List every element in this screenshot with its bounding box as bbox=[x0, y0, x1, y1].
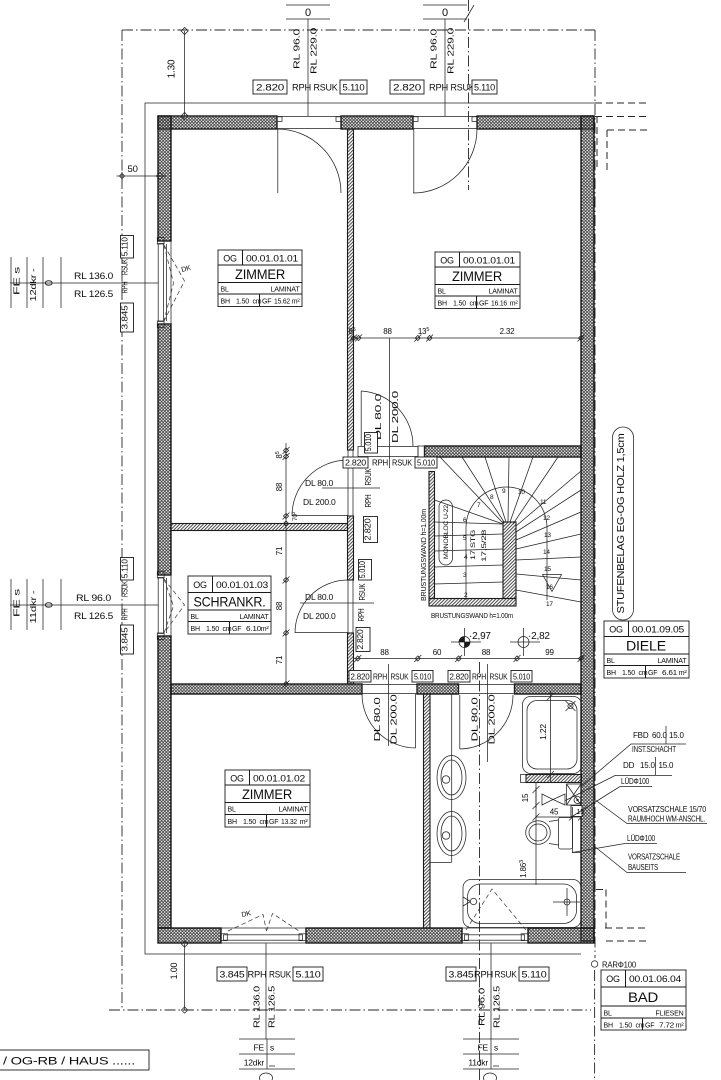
shower drain bbox=[566, 701, 576, 711]
svg-text:BAUSEITS: BAUSEITS bbox=[628, 863, 658, 872]
svg-text:4: 4 bbox=[464, 554, 468, 561]
svg-text:RL 96.0: RL 96.0 bbox=[292, 28, 302, 69]
svg-text:RL 96.0: RL 96.0 bbox=[76, 593, 111, 603]
svg-text:s: s bbox=[270, 1043, 274, 1053]
svg-text:RL 126.5: RL 126.5 bbox=[74, 289, 113, 299]
interior wall B segment 1 bbox=[171, 684, 362, 694]
stair walkline bbox=[466, 487, 547, 600]
svg-text:OG: OG bbox=[223, 254, 237, 264]
svg-text:15.0: 15.0 bbox=[669, 731, 685, 740]
svg-text:DL 80.0: DL 80.0 bbox=[305, 592, 334, 602]
vent circle bbox=[574, 797, 581, 804]
svg-text:DL 80.0: DL 80.0 bbox=[470, 697, 480, 742]
svg-text:1.50: 1.50 bbox=[453, 301, 466, 308]
toilet axis line bbox=[535, 783, 537, 885]
bottom marker W4 RL texts bbox=[477, 985, 502, 1028]
STUFENBELAG stadium label bbox=[613, 427, 634, 620]
window W4 bottom wall (BAD) frame bbox=[462, 928, 529, 943]
svg-text:50: 50 bbox=[128, 164, 138, 175]
top level marker axis line door D1 bbox=[307, 19, 309, 116]
exterior wall left segment 2 bbox=[158, 324, 171, 575]
svg-text:9: 9 bbox=[502, 488, 506, 495]
window W2 DK opening dashes bbox=[164, 579, 185, 633]
svg-text:6.10: 6.10 bbox=[246, 626, 261, 633]
svg-text:5.010: 5.010 bbox=[363, 434, 373, 451]
door D6 bottom ZIMMER opening bbox=[362, 684, 417, 694]
door D2 jamb blocks bbox=[413, 117, 418, 122]
svg-text:5.110: 5.110 bbox=[343, 83, 365, 93]
svg-text:RSUK: RSUK bbox=[490, 673, 509, 682]
svg-text:DL 200.0: DL 200.0 bbox=[487, 694, 497, 745]
svg-text:13.32: 13.32 bbox=[281, 819, 297, 826]
svg-text:m²: m² bbox=[300, 819, 309, 826]
door D7 BAD opening bbox=[459, 684, 515, 694]
room table ZIMMER1 bbox=[218, 250, 302, 307]
svg-text:99: 99 bbox=[545, 648, 554, 657]
interior partition P1 middle segment bbox=[348, 516, 354, 580]
svg-text:OG: OG bbox=[609, 625, 623, 635]
svg-text:LÜDΦ100: LÜDΦ100 bbox=[621, 777, 650, 786]
svg-text:5.010: 5.010 bbox=[357, 561, 367, 578]
door D7 DL size labels bbox=[470, 694, 497, 745]
svg-text:RPH: RPH bbox=[372, 459, 388, 468]
door D4 DL size labels bbox=[303, 478, 336, 507]
svg-text:VORSATZSCHALE 15/70: VORSATZSCHALE 15/70 bbox=[628, 805, 707, 814]
svg-text:RPH: RPH bbox=[429, 83, 448, 93]
svg-text:1.50: 1.50 bbox=[619, 1023, 632, 1030]
svg-text:LÜDΦ100: LÜDΦ100 bbox=[627, 834, 656, 843]
top level marker axis line door D2 bbox=[444, 19, 446, 116]
bottom dim row window W3 bbox=[217, 967, 323, 981]
exterior wall bottom segment 2 bbox=[306, 928, 462, 943]
svg-text:RSUK: RSUK bbox=[314, 83, 338, 93]
svg-text:1.00: 1.00 bbox=[169, 962, 179, 979]
svg-text:2.820: 2.820 bbox=[355, 629, 365, 649]
svg-text:3.845: 3.845 bbox=[120, 627, 130, 652]
svg-text:RL 136.0: RL 136.0 bbox=[252, 985, 262, 1028]
svg-text:BL: BL bbox=[607, 658, 615, 665]
hall dim row for door D3 bbox=[343, 338, 437, 468]
svg-text:RPH: RPH bbox=[363, 494, 373, 507]
interior partition P1 upper segment bbox=[348, 129, 354, 450]
svg-text:3: 3 bbox=[463, 572, 467, 579]
svg-text:SCHRANKR.: SCHRANKR. bbox=[194, 594, 266, 610]
window W2 left wall frame bbox=[157, 572, 171, 640]
svg-text:88: 88 bbox=[383, 327, 392, 336]
washbasin 2 bbox=[437, 812, 466, 856]
shower stub wall bbox=[526, 775, 582, 783]
svg-text:OG: OG bbox=[230, 774, 244, 784]
svg-text:5.110: 5.110 bbox=[522, 970, 547, 980]
svg-text:·2,97: ·2,97 bbox=[469, 631, 491, 642]
svg-text:m²: m² bbox=[292, 299, 301, 306]
exterior wall top segment 1 bbox=[158, 116, 277, 129]
svg-text:11: 11 bbox=[540, 499, 547, 506]
door D6 DL size labels bbox=[372, 694, 399, 745]
svg-text:LAMINAT: LAMINAT bbox=[240, 614, 270, 621]
svg-text:RL 229.0: RL 229.0 bbox=[446, 27, 456, 74]
svg-text:1.30: 1.30 bbox=[167, 59, 178, 78]
annotation VORSATZSCHALE 15/70 bbox=[594, 799, 707, 824]
svg-text:DL 200.0: DL 200.0 bbox=[303, 611, 336, 621]
svg-text:RL 229.0: RL 229.0 bbox=[309, 27, 319, 74]
svg-text:15: 15 bbox=[544, 566, 551, 573]
svg-text:BL: BL bbox=[191, 614, 199, 621]
svg-text:GF: GF bbox=[232, 626, 241, 633]
svg-text:LAMINAT: LAMINAT bbox=[271, 287, 301, 294]
door D2 leaf and swing arc bbox=[413, 129, 477, 193]
left marker LM2 window W2 bbox=[10, 579, 158, 630]
boundary dash-dot bottom bbox=[109, 1009, 591, 1011]
svg-text:88: 88 bbox=[482, 648, 491, 657]
svg-text:GF: GF bbox=[269, 819, 278, 826]
top dim row 1 bbox=[253, 80, 367, 94]
door D3 DL size labels bbox=[373, 390, 400, 443]
top level marker M2 bbox=[423, 5, 467, 19]
svg-text:88: 88 bbox=[275, 601, 284, 610]
hall dim row for door D6 bbox=[349, 664, 433, 746]
svg-text:DIELE: DIELE bbox=[626, 638, 666, 654]
shower tray bbox=[523, 697, 582, 774]
bottom FE table W4 bbox=[463, 1039, 519, 1080]
offset outline of storey below bbox=[145, 103, 595, 954]
svg-text:STUFENBELAG EG-OG HOLZ 1,5c: STUFENBELAG EG-OG HOLZ 1,5cm bbox=[616, 434, 627, 614]
toilet bbox=[526, 818, 573, 850]
annotation LUED 1 bbox=[571, 777, 653, 818]
exterior wall right bbox=[581, 116, 594, 941]
svg-text:RPH: RPH bbox=[356, 608, 366, 621]
dim 1.00 bottom left bbox=[169, 941, 188, 1013]
svg-text:RSUK: RSUK bbox=[120, 259, 130, 275]
svg-text:GF: GF bbox=[645, 1023, 654, 1030]
svg-text:ZIMMER: ZIMMER bbox=[242, 786, 292, 802]
svg-text:11dkr: 11dkr bbox=[468, 1058, 488, 1068]
svg-text:0: 0 bbox=[442, 7, 448, 19]
svg-text:m²: m² bbox=[261, 626, 270, 633]
svg-text:2.820: 2.820 bbox=[351, 673, 371, 682]
svg-text:cm: cm bbox=[223, 626, 232, 633]
svg-text:15: 15 bbox=[521, 793, 530, 802]
svg-text:s: s bbox=[494, 1043, 498, 1053]
svg-text:3.845: 3.845 bbox=[120, 305, 130, 330]
stair parapet left bbox=[429, 472, 435, 599]
window W3 DK opening dashes bbox=[228, 914, 299, 932]
svg-text:LAMINAT: LAMINAT bbox=[279, 807, 309, 814]
svg-text:BH: BH bbox=[607, 670, 616, 677]
boundary dash-dot right bbox=[594, 30, 596, 958]
stair newel column bbox=[503, 522, 516, 599]
annotation LUED 2 bbox=[572, 834, 657, 853]
svg-text:BRUSTUNGSWAND h=1.00m: BRUSTUNGSWAND h=1.00m bbox=[431, 611, 513, 620]
svg-text:FE: FE bbox=[254, 1043, 265, 1053]
section line top bbox=[468, 0, 470, 190]
svg-text:60.0: 60.0 bbox=[652, 731, 668, 740]
svg-text:3.845: 3.845 bbox=[449, 970, 474, 980]
svg-text:60: 60 bbox=[433, 648, 442, 657]
svg-text:RPH: RPH bbox=[120, 608, 130, 620]
left marker LM1 RL texts bbox=[74, 271, 113, 299]
door D2 top wall opening lines bbox=[413, 116, 477, 129]
svg-text:cm: cm bbox=[260, 819, 269, 826]
svg-text:cm: cm bbox=[639, 670, 648, 677]
svg-text:MONOBLOC U-22: MONOBLOC U-22 bbox=[443, 504, 450, 559]
svg-text:00.01.01.01: 00.01.01.01 bbox=[246, 254, 298, 264]
room table DIELE bbox=[604, 621, 689, 678]
svg-text:DL 80.0: DL 80.0 bbox=[305, 478, 334, 488]
exterior wall left segment 1 bbox=[158, 116, 171, 241]
exterior wall bottom segment 1 bbox=[158, 928, 221, 943]
door D4 ZIMMER1 to hall opening bbox=[348, 450, 354, 516]
svg-text:DL 200.0: DL 200.0 bbox=[390, 390, 400, 443]
svg-text:2: 2 bbox=[464, 592, 468, 599]
svg-text:15.0: 15.0 bbox=[640, 761, 656, 770]
svg-text:1.22: 1.22 bbox=[538, 724, 548, 740]
section line bottom bbox=[479, 662, 481, 1080]
svg-text:2.820: 2.820 bbox=[345, 459, 367, 468]
stairwell top wall end cap bbox=[418, 446, 425, 457]
bathtub bbox=[463, 880, 581, 928]
svg-text:m²: m² bbox=[510, 301, 519, 308]
svg-text:45: 45 bbox=[550, 808, 559, 817]
svg-text:RPH: RPH bbox=[474, 970, 493, 980]
left boxed column window W2 bbox=[120, 558, 134, 655]
svg-text:m²: m² bbox=[679, 670, 688, 677]
RAR vent circle bbox=[591, 961, 636, 970]
svg-text:RSUK: RSUK bbox=[391, 673, 410, 682]
svg-text:RL 96.0: RL 96.0 bbox=[477, 987, 487, 1026]
door D1 jamb blocks bbox=[277, 117, 282, 122]
svg-text:5.010: 5.010 bbox=[417, 459, 436, 468]
svg-text:·2,82: ·2,82 bbox=[528, 631, 550, 642]
bathtub tap bbox=[463, 897, 477, 906]
svg-text:RL 136.0: RL 136.0 bbox=[74, 271, 113, 281]
svg-text:RSUK: RSUK bbox=[357, 583, 367, 600]
svg-text:INST.SCHACHT: INST.SCHACHT bbox=[632, 745, 676, 754]
level symbol +2,97 bbox=[451, 628, 491, 656]
svg-text:RL 96.0: RL 96.0 bbox=[429, 28, 439, 69]
svg-text:0: 0 bbox=[44, 280, 56, 286]
door D5 DL size labels bbox=[303, 592, 336, 621]
svg-text:DL 80.0: DL 80.0 bbox=[372, 697, 382, 742]
stair parapet bottom bbox=[429, 599, 516, 607]
svg-text:6: 6 bbox=[463, 517, 467, 524]
interior partition P1 lower segment bbox=[348, 633, 354, 684]
left marker LM1 window W1 bbox=[10, 257, 158, 308]
svg-text:RPH: RPH bbox=[292, 83, 311, 93]
level symbol +2,82 bbox=[510, 628, 550, 656]
installation shaft box bbox=[567, 784, 582, 805]
exterior wall top segment 2 bbox=[341, 116, 413, 129]
svg-text:17 STG: 17 STG bbox=[470, 530, 477, 560]
bottom marker window W3 axis bbox=[265, 944, 267, 1040]
bath partition wall bbox=[424, 694, 431, 928]
bottom marker window W4 axis bbox=[490, 944, 492, 1040]
svg-text:VORSATZSCHALE: VORSATZSCHALE bbox=[628, 853, 680, 862]
svg-text:m²: m² bbox=[676, 1023, 685, 1030]
window W3 bottom wall (ZIMMER) frame bbox=[221, 928, 307, 943]
shower stub wall end cap bbox=[521, 775, 527, 783]
svg-text:RL 126.5: RL 126.5 bbox=[74, 611, 113, 621]
shower dim 1.22 bbox=[538, 691, 554, 783]
svg-text:6.61: 6.61 bbox=[662, 670, 677, 677]
svg-text:10: 10 bbox=[518, 489, 525, 496]
dim 15 vertical at WM bbox=[521, 786, 540, 809]
svg-text:BL: BL bbox=[438, 289, 446, 296]
svg-text:13: 13 bbox=[544, 532, 551, 539]
svg-text:BRUSTUNGSWAND h=1.00m: BRUSTUNGSWAND h=1.00m bbox=[419, 509, 428, 601]
svg-text:2.820: 2.820 bbox=[363, 518, 373, 541]
annotation VORSATZSCHALE BAUSEITS bbox=[594, 846, 686, 873]
svg-text:8: 8 bbox=[490, 494, 494, 501]
stair treads fan top bbox=[435, 457, 582, 526]
exterior wall top segment 3 bbox=[477, 116, 594, 129]
washing machine valve bbox=[542, 794, 565, 805]
svg-text:00.01.01.01: 00.01.01.01 bbox=[463, 256, 515, 266]
svg-text:OG: OG bbox=[440, 256, 454, 266]
svg-text:BAD: BAD bbox=[628, 989, 658, 1005]
svg-text:RAUMHOCH WM-ANSCHL.: RAUMHOCH WM-ANSCHL. bbox=[628, 815, 705, 824]
svg-text:LAMINAT: LAMINAT bbox=[489, 289, 519, 296]
window W1 DK opening dashes bbox=[164, 245, 185, 321]
toilet lining line bbox=[573, 807, 582, 853]
svg-text:RSUK: RSUK bbox=[363, 468, 373, 485]
svg-text:RSUK: RSUK bbox=[392, 459, 413, 468]
door D5 SCHRANKR opening bbox=[348, 580, 354, 633]
left marker LM2 RL texts bbox=[74, 593, 113, 621]
svg-text:OG: OG bbox=[606, 974, 620, 984]
mid column door D5 bbox=[300, 560, 374, 652]
stair step numbers bbox=[463, 488, 553, 608]
exterior wall bottom segment 3 bbox=[528, 928, 594, 943]
svg-text:BL: BL bbox=[604, 1011, 612, 1018]
svg-text:00.01.01.02: 00.01.01.02 bbox=[253, 774, 305, 784]
svg-text:14: 14 bbox=[543, 549, 550, 556]
door D5 leaf and swing arc bbox=[295, 580, 348, 633]
svg-text:RSUK: RSUK bbox=[451, 83, 475, 93]
svg-text:FE: FE bbox=[478, 1043, 489, 1053]
svg-text:17,5/28: 17,5/28 bbox=[481, 529, 488, 562]
svg-text:5.110: 5.110 bbox=[296, 970, 321, 980]
svg-text:BH: BH bbox=[221, 299, 230, 306]
annotation FBD bbox=[581, 726, 686, 787]
dim 1.30 top left bbox=[167, 27, 189, 119]
door D3 leaf and swing arc bbox=[361, 391, 413, 446]
svg-text:17: 17 bbox=[546, 601, 553, 608]
svg-text:7.72: 7.72 bbox=[659, 1023, 674, 1030]
svg-text:cm: cm bbox=[636, 1023, 645, 1030]
svg-text:1.50: 1.50 bbox=[243, 819, 256, 826]
interior wall B segment 3 bbox=[515, 684, 582, 694]
svg-text:GF: GF bbox=[262, 299, 271, 306]
title box OG-RB HAUS bbox=[0, 1050, 149, 1070]
svg-text:BL: BL bbox=[228, 807, 236, 814]
svg-text:LAMINAT: LAMINAT bbox=[658, 658, 688, 665]
svg-text:16: 16 bbox=[546, 584, 553, 591]
door D7 leaf and swing arc bbox=[460, 695, 513, 749]
dim 45 and boxed 15 bbox=[533, 806, 586, 821]
svg-text:1.50: 1.50 bbox=[206, 626, 219, 633]
svg-text:12dkr -: 12dkr - bbox=[28, 268, 38, 301]
mid column door D4 bbox=[322, 433, 380, 543]
door D6 leaf and swing arc bbox=[362, 694, 416, 748]
door D1 leaf and swing arc bbox=[277, 129, 341, 193]
interior wall B segment 2 bbox=[417, 684, 459, 694]
room table SCHRANKR bbox=[188, 576, 271, 634]
svg-text:1.50: 1.50 bbox=[622, 670, 635, 677]
top marker M2 RL texts bbox=[429, 27, 456, 74]
stair MONOBLOC label stadium bbox=[439, 500, 453, 565]
svg-text:FE s: FE s bbox=[12, 589, 22, 617]
svg-text:1.50: 1.50 bbox=[236, 299, 249, 306]
bathtub drain crosshair bbox=[553, 888, 580, 916]
hall dim line y 658.5 bbox=[354, 648, 585, 662]
svg-text:2.32: 2.32 bbox=[500, 327, 516, 336]
boundary dash-dot left bbox=[121, 30, 123, 1010]
svg-text:7: 7 bbox=[477, 502, 481, 509]
svg-text:RSUK: RSUK bbox=[269, 970, 291, 980]
bottom marker W3 RL texts bbox=[252, 985, 277, 1028]
stair treads right bbox=[516, 490, 581, 602]
window W4 DK opening dashes bbox=[466, 889, 526, 930]
hall dim row for door D7 bbox=[448, 664, 532, 762]
stair treads left bbox=[435, 522, 504, 584]
svg-text:RPH: RPH bbox=[248, 970, 267, 980]
room table ZIMMER3 bbox=[225, 770, 310, 827]
svg-text:BH: BH bbox=[438, 301, 447, 308]
svg-text:FBD: FBD bbox=[633, 731, 649, 740]
svg-text:88: 88 bbox=[275, 482, 284, 491]
svg-text:BH: BH bbox=[228, 819, 237, 826]
svg-text:BL: BL bbox=[221, 287, 229, 294]
window W1 left wall frame bbox=[157, 238, 171, 328]
left boxed column window W1 bbox=[120, 236, 134, 333]
bottom FE table W3 bbox=[239, 1039, 295, 1080]
washbasin 1 bbox=[437, 756, 466, 800]
door D3 ZIMMER2 to hall opening bbox=[358, 446, 418, 457]
svg-text:DD: DD bbox=[623, 761, 635, 770]
bottom dim row window W4 bbox=[446, 967, 549, 981]
dashed extension lines bottom right bbox=[596, 890, 648, 942]
top dim row 2 bbox=[390, 80, 497, 94]
svg-text:BH: BH bbox=[191, 626, 200, 633]
annotation DD bbox=[566, 757, 675, 801]
svg-text:/ OG-RB / HAUS ......: / OG-RB / HAUS ...... bbox=[3, 1056, 135, 1068]
svg-text:71: 71 bbox=[275, 655, 284, 664]
top level marker M1 bbox=[286, 5, 330, 19]
svg-text:5.110: 5.110 bbox=[120, 559, 130, 578]
svg-text:ZIMMER: ZIMMER bbox=[452, 268, 502, 284]
svg-text:12dkr: 12dkr bbox=[244, 1058, 265, 1068]
svg-text:GF: GF bbox=[648, 670, 657, 677]
svg-text:0: 0 bbox=[44, 602, 56, 608]
svg-text:5.010: 5.010 bbox=[513, 673, 531, 682]
boundary dash-dot top bbox=[122, 29, 595, 31]
svg-text:88: 88 bbox=[380, 648, 389, 657]
room table ZIMMER2 bbox=[435, 252, 520, 309]
svg-text:5.110: 5.110 bbox=[474, 83, 495, 93]
svg-text:2.820: 2.820 bbox=[450, 673, 470, 682]
door D1 top wall opening lines bbox=[277, 116, 341, 129]
svg-text:DL 200.0: DL 200.0 bbox=[303, 497, 336, 507]
svg-text:RARΦ100: RARΦ100 bbox=[602, 961, 637, 970]
svg-text:OG: OG bbox=[193, 580, 207, 590]
svg-text:5: 5 bbox=[463, 535, 467, 542]
svg-text:RSUK: RSUK bbox=[495, 970, 517, 980]
svg-text:5.110: 5.110 bbox=[120, 237, 130, 256]
interior wall A between ZIMMER1 and SCHRANKR bbox=[171, 524, 348, 531]
svg-text:2.820: 2.820 bbox=[256, 83, 284, 93]
svg-text:RPH: RPH bbox=[472, 673, 486, 682]
